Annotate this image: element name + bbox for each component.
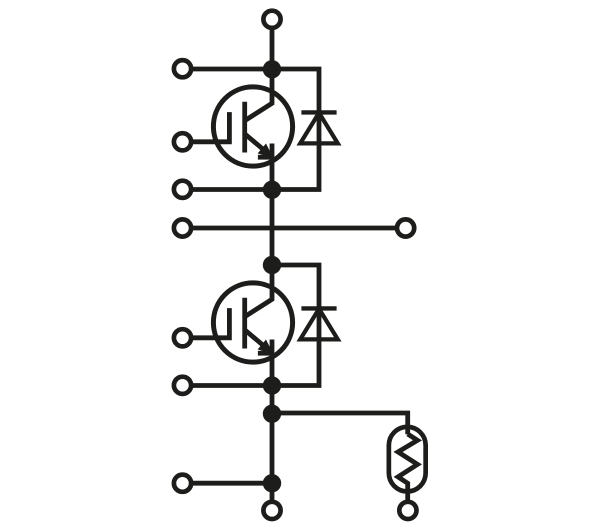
IGBT T1 circle: [213, 87, 292, 166]
terminal 2 (DC-, bottom): [263, 502, 280, 519]
IGBT T1 collector diagonal and lead up to node C1: [245, 69, 272, 121]
wire: diode D2 branch (top, right side, bottom): [272, 265, 319, 386]
diode D1 cathode bar: [301, 110, 336, 114]
IGBT T2 emitter lead down to node E2: [270, 340, 275, 386]
node C2 junction: [263, 256, 281, 274]
node bottom junction: [263, 474, 281, 492]
node E1 junction: [263, 181, 281, 199]
wire: top lead from terminal to node C1: [270, 28, 275, 69]
NTC thermistor body (stadium outline): [389, 427, 426, 492]
IGBT T2 emitter diagonal: [245, 330, 269, 350]
IGBT T2 gate lead and gate bar: [191, 308, 229, 338]
node E2 junction: [263, 376, 281, 394]
wire: aux collector row 1: [191, 67, 272, 72]
IGBT T2 emitter horizontal bar: [258, 351, 273, 356]
IGBT T2 collector diagonal and lead up to node C2: [245, 265, 272, 317]
terminal (gate 1, left): [174, 133, 191, 150]
IGBT T1 emitter lead down to node E1: [270, 144, 275, 190]
IGBT T1 gate lead and gate bar: [191, 112, 229, 142]
IGBT T1 emitter diagonal: [245, 134, 269, 154]
wire: phase output row (AC): [191, 226, 397, 231]
node NTC tap junction: [263, 405, 281, 423]
wire: midpoint link E1 to C2: [270, 190, 275, 266]
terminal (aux emitter 1, left): [174, 181, 191, 198]
IGBT T1 emitter arrowhead: [259, 145, 271, 157]
terminal 1 (AC right): [397, 219, 414, 236]
NTC thermistor resistive element (zigzag): [398, 434, 418, 501]
node C1 junction: [263, 60, 281, 78]
diode D2 triangle: [300, 309, 338, 340]
wire: aux emitter row 2: [191, 383, 272, 388]
wire: aux emitter row 1: [191, 187, 272, 192]
IGBT T1 channel bar: [242, 102, 247, 153]
terminal (aux emitter 2, left): [174, 377, 191, 394]
terminal (aux, bottom left): [174, 475, 191, 492]
IGBT T1 emitter horizontal bar: [258, 155, 273, 160]
terminal 3 (DC+, top): [263, 11, 280, 28]
diode D1 triangle: [300, 113, 338, 144]
terminal (AC left): [174, 219, 191, 236]
wire: diode D1 branch (top, right side, bottom): [272, 69, 319, 190]
wire: main line E2 down to bottom terminal: [270, 386, 275, 502]
terminal (aux collector 1, left): [174, 60, 191, 77]
IGBT T2 emitter arrowhead: [259, 341, 271, 353]
wire: bottom aux row: [191, 481, 272, 486]
IGBT T2 channel bar: [242, 298, 247, 349]
IGBT T2 circle: [213, 283, 292, 362]
terminal (NTC bottom): [399, 502, 416, 519]
terminal (gate 2, left): [174, 329, 191, 346]
wire: NTC branch to thermistor top: [272, 413, 408, 434]
diode D2 cathode bar: [301, 306, 336, 310]
